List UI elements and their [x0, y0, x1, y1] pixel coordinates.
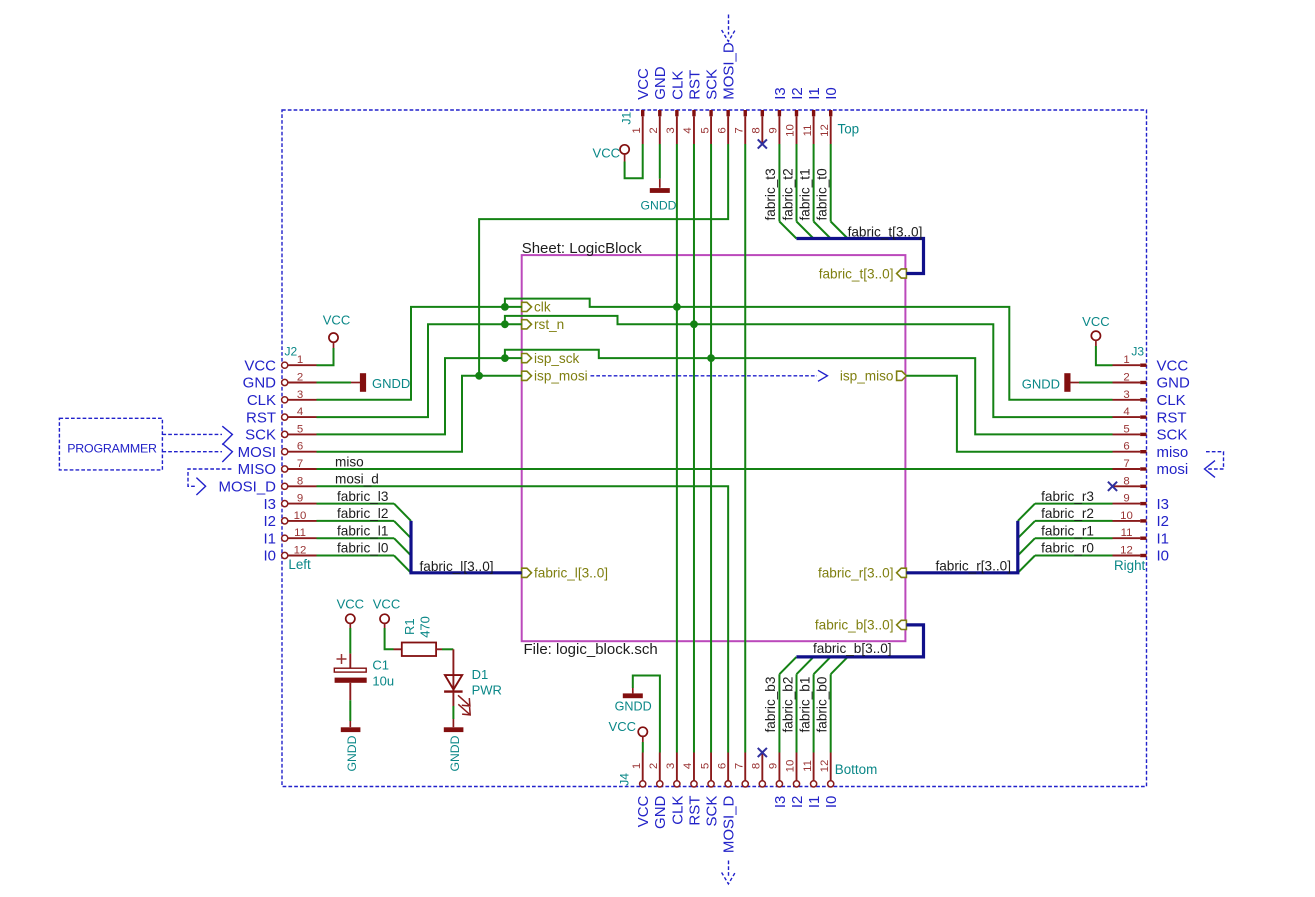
- svg-text:2: 2: [648, 763, 660, 769]
- svg-text:GNDD: GNDD: [448, 735, 462, 771]
- svg-text:3: 3: [665, 127, 677, 133]
- svg-text:11: 11: [802, 125, 814, 137]
- svg-text:6: 6: [716, 763, 728, 769]
- power VCC at R1: [373, 597, 400, 629]
- svg-text:SCK: SCK: [245, 427, 276, 444]
- net label fabric_t1: [797, 168, 812, 220]
- connector J4 pin 8: [751, 753, 766, 788]
- sheet pin fabric_r[3..0]: [818, 566, 906, 581]
- svg-text:isp_miso: isp_miso: [840, 369, 894, 384]
- net label fabric_l3: [337, 489, 388, 504]
- svg-text:5: 5: [699, 763, 711, 769]
- connector J4 pin 10 (I2): [785, 753, 806, 809]
- svg-text:11: 11: [1121, 527, 1133, 539]
- connector J2 pin 3 (CLK): [247, 389, 317, 409]
- svg-text:fabric_b[3..0]: fabric_b[3..0]: [813, 641, 892, 656]
- svg-text:CLK: CLK: [669, 71, 686, 100]
- svg-text:12: 12: [819, 760, 831, 773]
- wire fabric_r3: [1035, 503, 1113, 505]
- connector J4 reference: [618, 773, 632, 786]
- wire VCC to R1: [385, 628, 394, 649]
- svg-text:1: 1: [631, 127, 643, 133]
- svg-text:Top: Top: [838, 122, 860, 137]
- wire J1 pin2 to GNDD: [659, 144, 661, 179]
- connector J1 pin 1 (VCC): [631, 68, 652, 144]
- svg-text:fabric_l0: fabric_l0: [337, 541, 389, 556]
- bus entry fabric_r3: [1018, 504, 1035, 521]
- svg-text:mosi: mosi: [1157, 461, 1189, 478]
- svg-text:PWR: PWR: [472, 683, 502, 698]
- label Top: [838, 122, 860, 137]
- sheet pin fabric_l[3..0]: [522, 566, 608, 581]
- svg-text:9: 9: [297, 493, 303, 505]
- svg-text:1: 1: [1123, 354, 1129, 366]
- bus entry fabric_t0: [831, 222, 848, 239]
- svg-text:RST: RST: [1157, 409, 1187, 426]
- svg-text:10: 10: [1120, 510, 1133, 522]
- label Bottom: [835, 762, 877, 777]
- svg-text:isp_mosi: isp_mosi: [534, 369, 588, 384]
- svg-text:10: 10: [785, 760, 797, 773]
- svg-text:J1: J1: [619, 112, 633, 125]
- connector J4 pin 1 (VCC): [631, 753, 652, 828]
- wire fabric_t3: [778, 144, 780, 222]
- svg-text:I2: I2: [789, 87, 806, 100]
- svg-text:I1: I1: [806, 87, 823, 100]
- svg-text:8: 8: [751, 763, 763, 769]
- svg-text:470: 470: [418, 616, 433, 638]
- svg-text:VCC: VCC: [635, 795, 652, 827]
- label Left: [288, 557, 311, 572]
- wire J1 pin7 to J4 pin7: [744, 144, 746, 753]
- svg-text:GND: GND: [1157, 375, 1191, 392]
- svg-text:SCK: SCK: [703, 796, 720, 827]
- svg-text:fabric_t[3..0]: fabric_t[3..0]: [848, 225, 923, 240]
- wire fabric_l2: [317, 520, 395, 522]
- svg-text:3: 3: [297, 389, 303, 401]
- svg-text:Sheet: LogicBlock: Sheet: LogicBlock: [522, 240, 643, 257]
- svg-text:7: 7: [297, 458, 303, 470]
- svg-text:12: 12: [819, 124, 831, 137]
- svg-text:6: 6: [716, 127, 728, 133]
- svg-text:6: 6: [1123, 441, 1129, 453]
- wire fabric_r1: [1035, 537, 1113, 539]
- svg-text:fabric_r0: fabric_r0: [1041, 541, 1094, 556]
- svg-text:4: 4: [682, 127, 694, 133]
- svg-text:fabric_l2: fabric_l2: [337, 506, 388, 521]
- svg-text:VCC: VCC: [373, 597, 400, 612]
- wire net MOSI_D: [317, 486, 729, 752]
- svg-text:fabric_r1: fabric_r1: [1041, 523, 1094, 538]
- wire fabric_b2: [796, 674, 798, 752]
- wire C1 to GNDD: [349, 700, 351, 721]
- svg-text:6: 6: [297, 441, 303, 453]
- svg-text:3: 3: [1123, 389, 1129, 401]
- net label fabric_r0: [1041, 541, 1094, 556]
- svg-text:1: 1: [631, 763, 643, 769]
- wire fabric_r2: [1035, 520, 1113, 522]
- net label fabric_l2: [337, 506, 388, 521]
- svg-text:7: 7: [733, 127, 745, 133]
- svg-text:fabric_r[3..0]: fabric_r[3..0]: [818, 566, 894, 581]
- svg-text:11: 11: [802, 760, 814, 772]
- bus label fabric_l[3..0]: [420, 559, 494, 574]
- sheet pin fabric_b[3..0]: [815, 618, 906, 633]
- svg-text:5: 5: [297, 423, 303, 435]
- svg-text:10u: 10u: [372, 673, 394, 688]
- connector J1 pin 10 (I2): [785, 87, 806, 144]
- sheet name label: [522, 240, 643, 257]
- bus entry fabric_t1: [814, 222, 831, 239]
- svg-text:I2: I2: [263, 513, 276, 530]
- power VCC at J1: [593, 145, 630, 162]
- svg-text:MOSI_D: MOSI_D: [721, 42, 738, 100]
- net label fabric_r3: [1041, 489, 1094, 504]
- junction RST right: [690, 320, 698, 328]
- net label fabric_r1: [1041, 523, 1094, 538]
- power VCC at C1: [337, 597, 364, 629]
- connector J2 pin 9 (I3): [263, 493, 316, 513]
- power GNDD at D1: [444, 719, 464, 772]
- connector J3 pin 10 (I2): [1113, 510, 1170, 530]
- sheet pin rst_n: [522, 317, 565, 332]
- svg-text:I2: I2: [1157, 513, 1170, 530]
- connector J2 pin 7 (MISO): [238, 458, 317, 478]
- svg-text:fabric_t1: fabric_t1: [797, 168, 812, 220]
- net label fabric_t2: [780, 168, 795, 220]
- svg-text:10: 10: [294, 510, 307, 522]
- svg-text:GNDD: GNDD: [345, 735, 359, 771]
- wire fabric_b0: [830, 674, 832, 752]
- bus entry fabric_t3: [779, 222, 796, 239]
- svg-text:fabric_r2: fabric_r2: [1041, 506, 1094, 521]
- wire net RST: [317, 144, 1113, 753]
- bus fabric_l[3..0]: [411, 521, 522, 573]
- dashed arrow PROGRAMMER to SCK: [162, 426, 232, 445]
- connector J1 pin 9 (I3): [768, 87, 789, 144]
- svg-text:PROGRAMMER: PROGRAMMER: [67, 442, 157, 456]
- connector J2 reference: [285, 345, 298, 359]
- svg-text:fabric_b1: fabric_b1: [797, 677, 812, 733]
- svg-text:12: 12: [1120, 545, 1133, 557]
- svg-text:fabric_t3: fabric_t3: [763, 168, 778, 220]
- wire J3 pin1 to VCC: [1096, 346, 1113, 365]
- svg-text:5: 5: [1123, 423, 1129, 435]
- junction CLK right: [673, 303, 681, 311]
- connector J4 pin 11 (I1): [802, 753, 823, 809]
- svg-text:MOSI_D: MOSI_D: [721, 795, 738, 853]
- svg-text:RST: RST: [246, 409, 276, 426]
- connector J1 pin 11 (I1): [802, 87, 823, 144]
- connector J4 pin 4 (RST): [682, 753, 703, 826]
- svg-text:mosi_d: mosi_d: [335, 472, 379, 487]
- bus entry fabric_l0: [394, 556, 411, 573]
- svg-text:8: 8: [297, 475, 303, 487]
- svg-text:8: 8: [751, 127, 763, 133]
- connector J4 pin 2 (GND): [648, 753, 669, 829]
- connector J3 pin 11 (I1): [1113, 527, 1170, 547]
- svg-text:GNDD: GNDD: [615, 700, 652, 714]
- net label fabric_r2: [1041, 506, 1094, 521]
- svg-text:SCK: SCK: [703, 69, 720, 100]
- junction RST left: [501, 320, 509, 328]
- svg-text:2: 2: [297, 372, 303, 384]
- wire D1 to GNDD: [452, 706, 454, 719]
- connector J3 pin 8: [1113, 475, 1147, 488]
- svg-text:J3: J3: [1131, 344, 1144, 358]
- svg-text:R1: R1: [402, 618, 417, 635]
- wire fabric_l3: [317, 503, 395, 505]
- bus fabric_t[3..0]: [796, 239, 923, 274]
- wire fabric_b3: [778, 674, 780, 752]
- bus label fabric_b[3..0]: [813, 641, 892, 656]
- wire J1 pin1 to VCC: [625, 144, 643, 178]
- svg-text:GND: GND: [652, 795, 669, 829]
- bus entry fabric_b3: [779, 657, 796, 674]
- svg-text:C1: C1: [372, 657, 389, 672]
- svg-text:GNDD: GNDD: [372, 376, 410, 391]
- svg-text:fabric_l[3..0]: fabric_l[3..0]: [420, 559, 494, 574]
- wire fabric_t0: [830, 144, 832, 222]
- wire fabric_t1: [813, 144, 815, 222]
- power VCC at J4: [609, 719, 648, 742]
- sheet pin isp_mosi: [522, 369, 588, 384]
- net label fabric_b3: [763, 677, 778, 733]
- svg-text:miso: miso: [335, 454, 364, 469]
- svg-text:4: 4: [682, 763, 694, 769]
- connector J1 reference: [619, 112, 633, 125]
- connector J1 pin 5 (SCK): [699, 69, 720, 144]
- net label fabric_l0: [337, 541, 389, 556]
- bus entry fabric_l1: [394, 538, 411, 555]
- connector J3 pin 5 (SCK): [1113, 423, 1188, 443]
- bus entry fabric_l2: [394, 521, 411, 538]
- dashed link MISO to MOSI_D: [188, 469, 231, 495]
- connector J3 pin 9 (I3): [1113, 493, 1170, 513]
- power GNDD at J2: [351, 373, 410, 392]
- wire fabric_b1: [813, 674, 815, 752]
- svg-text:fabric_t0: fabric_t0: [814, 168, 829, 221]
- bus entry fabric_r0: [1018, 556, 1035, 573]
- connector J4 pin 5 (SCK): [699, 753, 720, 827]
- svg-text:9: 9: [1123, 493, 1129, 505]
- bus entry fabric_r2: [1018, 521, 1035, 538]
- connector J3 pin 12 (I0): [1113, 545, 1170, 565]
- connector J1 pin 3 (CLK): [665, 71, 686, 144]
- junction ISP_SCK left: [501, 354, 509, 362]
- svg-text:CLK: CLK: [669, 796, 686, 825]
- net label fabric_l1: [337, 523, 388, 538]
- wire J2 pin1 to VCC: [317, 348, 334, 365]
- svg-text:8: 8: [1123, 475, 1129, 487]
- junction CLK left: [501, 303, 509, 311]
- wire net ISP_MOSI: [317, 144, 729, 452]
- svg-text:CLK: CLK: [247, 392, 276, 409]
- no-connect J3 pin 8: [1108, 482, 1117, 491]
- connector J3 pin 4 (RST): [1113, 406, 1187, 426]
- svg-text:12: 12: [294, 545, 307, 557]
- svg-text:Left: Left: [288, 557, 311, 572]
- svg-text:7: 7: [1123, 458, 1129, 470]
- connector J2 pin 11 (I1): [263, 527, 316, 547]
- svg-text:File: logic_block.sch: File: logic_block.sch: [524, 641, 658, 658]
- svg-text:I0: I0: [1157, 548, 1170, 565]
- svg-text:fabric_l3: fabric_l3: [337, 489, 388, 504]
- svg-text:SCK: SCK: [1157, 427, 1188, 444]
- dashed arrow MOSI_D top: [722, 15, 736, 42]
- svg-text:VCC: VCC: [337, 597, 364, 612]
- connector J3 pin 7 (mosi): [1113, 458, 1189, 478]
- svg-text:fabric_r3: fabric_r3: [1041, 489, 1094, 504]
- sheet pin isp_miso: [840, 369, 907, 384]
- svg-text:I1: I1: [263, 530, 276, 547]
- wire net CLK: [317, 144, 1113, 753]
- net label fabric_b1: [797, 677, 812, 733]
- svg-text:D1: D1: [472, 667, 489, 682]
- svg-text:isp_sck: isp_sck: [534, 351, 580, 366]
- svg-text:I2: I2: [789, 796, 806, 809]
- junction ISP_MOSI: [475, 372, 483, 380]
- svg-text:I3: I3: [263, 496, 276, 513]
- connector J3 pin 3 (CLK): [1113, 389, 1186, 409]
- svg-text:Bottom: Bottom: [835, 762, 877, 777]
- svg-text:fabric_l[3..0]: fabric_l[3..0]: [534, 566, 608, 581]
- connector J4 pin 3 (CLK): [665, 753, 686, 825]
- sheet file label: [524, 641, 658, 658]
- svg-text:CLK: CLK: [1157, 392, 1186, 409]
- connector J1 pin 12 (I0): [819, 87, 840, 144]
- svg-text:fabric_b2: fabric_b2: [780, 677, 795, 733]
- junction ISP_SCK right: [707, 354, 715, 362]
- PROGRAMMER block: [59, 418, 162, 470]
- sheet pin fabric_t[3..0]: [819, 266, 907, 281]
- svg-text:4: 4: [1123, 406, 1129, 418]
- wire fabric_t2: [796, 144, 798, 222]
- svg-text:GND: GND: [652, 66, 669, 100]
- svg-text:VCC: VCC: [635, 68, 652, 100]
- svg-text:fabric_t2: fabric_t2: [780, 168, 795, 220]
- bus entry fabric_b0: [831, 657, 848, 674]
- svg-text:GNDD: GNDD: [1022, 376, 1060, 391]
- connector J2 pin 6 (MOSI): [238, 441, 317, 461]
- svg-text:I3: I3: [772, 796, 789, 809]
- bus entry fabric_b2: [797, 657, 814, 674]
- net label fabric_t3: [763, 168, 778, 220]
- svg-text:I0: I0: [263, 548, 276, 565]
- svg-text:I3: I3: [1157, 496, 1170, 513]
- svg-text:I0: I0: [823, 796, 840, 809]
- connector J1 pin 7: [733, 110, 747, 144]
- svg-text:VCC: VCC: [1082, 314, 1109, 329]
- svg-text:MOSI_D: MOSI_D: [218, 479, 276, 496]
- connector J3 pin 2 (GND): [1113, 372, 1191, 392]
- svg-text:fabric_b3: fabric_b3: [763, 677, 778, 733]
- label Right: [1114, 558, 1146, 573]
- net label miso: [335, 454, 364, 469]
- svg-text:J4: J4: [618, 773, 632, 786]
- svg-text:MISO: MISO: [238, 461, 276, 478]
- LED D1 PWR: [444, 649, 502, 715]
- svg-text:9: 9: [768, 763, 780, 769]
- power GNDD at C1: [341, 721, 361, 772]
- svg-text:miso: miso: [1157, 444, 1189, 461]
- svg-text:VCC: VCC: [609, 719, 636, 734]
- power VCC at J3: [1082, 314, 1109, 346]
- wire net MISO: [317, 468, 1113, 470]
- svg-text:1: 1: [297, 354, 303, 366]
- svg-text:I0: I0: [823, 87, 840, 100]
- svg-text:2: 2: [1123, 372, 1129, 384]
- dashed arrow MOSI_D bottom: [722, 861, 736, 884]
- wire net ISP_SCK: [317, 144, 1113, 753]
- connector J2 pin 8 (MOSI_D): [218, 475, 316, 495]
- dashed arrow PROGRAMMER to MOSI: [162, 444, 232, 463]
- net label mosi_d: [335, 472, 379, 487]
- svg-text:rst_n: rst_n: [534, 317, 564, 332]
- connector J2 pin 2 (GND): [243, 372, 317, 392]
- svg-text:4: 4: [297, 406, 303, 418]
- svg-text:Right: Right: [1114, 558, 1146, 573]
- svg-text:5: 5: [699, 127, 711, 133]
- svg-text:RST: RST: [686, 796, 703, 826]
- svg-text:9: 9: [768, 127, 780, 133]
- svg-text:10: 10: [785, 124, 797, 137]
- bus entry fabric_r1: [1018, 538, 1035, 555]
- svg-text:I1: I1: [806, 796, 823, 809]
- connector J2 pin 12 (I0): [263, 545, 316, 565]
- svg-text:2: 2: [648, 127, 660, 133]
- bus fabric_b[3..0]: [796, 625, 923, 657]
- svg-text:MOSI: MOSI: [238, 444, 276, 461]
- connector J1 pin 8: [751, 110, 765, 144]
- connector J1 pin 6 (MOSI_D): [716, 42, 737, 144]
- connector J2 pin 10 (I2): [263, 510, 316, 530]
- sheet pin isp_sck: [522, 351, 580, 366]
- connector J2 pin 1 (VCC): [244, 354, 316, 374]
- svg-text:11: 11: [294, 527, 306, 539]
- no-connect J1 pin 8: [758, 139, 767, 148]
- net label fabric_b2: [780, 677, 795, 733]
- bus entry fabric_t2: [797, 222, 814, 239]
- connector J3 reference: [1131, 344, 1144, 358]
- connector J1 pin 4 (RST): [682, 70, 703, 144]
- svg-text:I1: I1: [1157, 530, 1170, 547]
- wire net ISP_MISO: [906, 376, 1112, 452]
- wire fabric_l0: [317, 555, 395, 557]
- capacitor C1: [334, 654, 394, 701]
- connector J2 pin 5 (SCK): [245, 423, 316, 443]
- connector J4 pin 6 (MOSI_D): [716, 753, 737, 854]
- svg-text:fabric_r[3..0]: fabric_r[3..0]: [935, 559, 1011, 574]
- wire J3 pin2 to GNDD: [1079, 382, 1113, 384]
- svg-text:3: 3: [665, 763, 677, 769]
- connector J1 pin 2 (GND): [648, 66, 669, 144]
- wire VCC to C1: [349, 628, 351, 654]
- svg-text:fabric_t[3..0]: fabric_t[3..0]: [819, 266, 894, 281]
- connector J4 pin 9 (I3): [768, 753, 789, 809]
- wire R1 to D1: [442, 648, 453, 650]
- connector J3 pin 1 (VCC): [1113, 354, 1189, 374]
- bus entry fabric_b1: [814, 657, 831, 674]
- power GNDD at J1: [641, 179, 677, 213]
- wire J4 pin2 to GNDD: [633, 676, 660, 753]
- svg-text:clk: clk: [534, 300, 551, 315]
- resistor R1 470: [394, 616, 443, 656]
- svg-text:I3: I3: [772, 87, 789, 100]
- dashed arrow isp_mosi to isp_miso: [591, 370, 828, 381]
- connector J3 pin 6 (miso): [1113, 441, 1189, 461]
- power GNDD at J4: [615, 688, 652, 714]
